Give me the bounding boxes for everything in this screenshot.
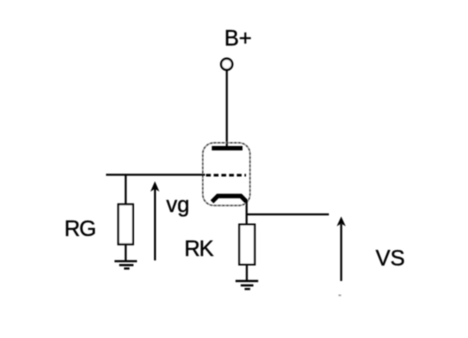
resistor RG [118,204,133,244]
grid (dashed) [206,174,246,177]
wire B+ to plate [226,70,228,147]
cathode [212,196,247,202]
tube envelope U1 [203,143,250,206]
ground (RG) [115,261,138,268]
wire cathode to RK [246,200,248,225]
svg-text:RG: RG [64,216,95,241]
wire grid to RG [125,175,127,205]
ground (RK) [236,281,259,289]
svg-text:RK: RK [184,236,214,261]
arrow vg [150,181,159,260]
wire output [247,213,329,215]
svg-text:VS: VS [376,246,405,271]
wire RK to ground [246,265,248,281]
stray mark [339,295,342,297]
wire grid input [106,174,205,176]
resistor RK [239,225,254,265]
plate (anode) [212,146,243,150]
arrow VS [337,217,346,282]
svg-text:vg: vg [166,192,189,217]
terminal B+ [221,59,232,70]
wire RG to ground [125,244,127,260]
svg-text:B+: B+ [224,25,252,50]
